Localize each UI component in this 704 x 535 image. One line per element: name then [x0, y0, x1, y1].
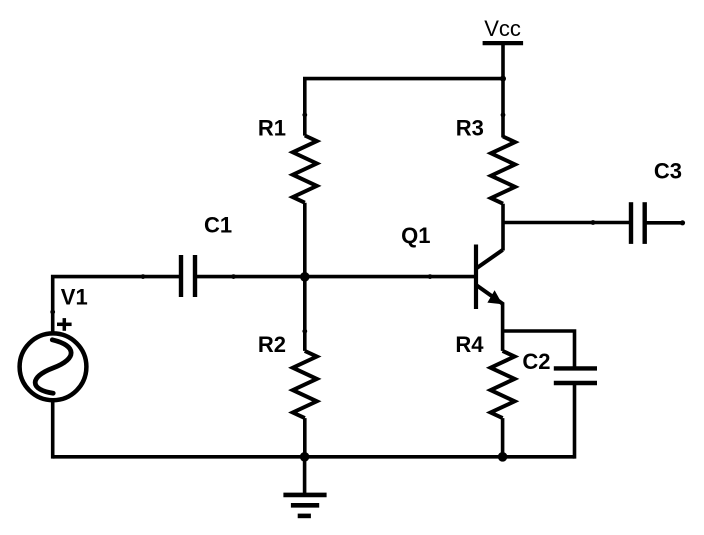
pin nub V1 top	[50, 310, 55, 315]
pin nub R1 top	[302, 113, 307, 118]
svg-text:C1: C1	[204, 213, 232, 238]
voltage source V1	[20, 333, 87, 400]
base bar	[474, 245, 478, 310]
svg-text:R4: R4	[455, 332, 484, 357]
svg-text:Q1: Q1	[401, 223, 430, 248]
pin nub Q1 base	[428, 274, 433, 279]
pin nub C1 right	[231, 274, 236, 279]
Vcc power rail symbol	[483, 41, 523, 45]
capacitor C3	[631, 202, 645, 244]
wire R4 to ground rail	[501, 418, 505, 457]
wire C1 to base node	[195, 275, 305, 279]
capacitor C2	[554, 368, 597, 383]
ground	[283, 457, 326, 516]
wire base node to R2	[303, 277, 307, 351]
pin nub C1 left	[141, 274, 146, 279]
resistor R4	[491, 351, 515, 418]
junction nub top rail / Vcc	[500, 76, 506, 82]
pin nub R3 top	[501, 113, 506, 118]
pin nub R2 top	[302, 329, 307, 334]
plus sign	[57, 318, 72, 331]
wire base node to Q1 base	[305, 275, 476, 279]
wire emitter to C2	[503, 331, 575, 368]
wire collector node to C3	[503, 221, 631, 225]
svg-text:R1: R1	[258, 116, 286, 141]
wire R2 to ground node	[303, 418, 307, 457]
wire Vcc to R3	[501, 43, 505, 137]
svg-text:R3: R3	[456, 116, 484, 141]
resistor R1	[293, 136, 317, 203]
wire C3 output	[645, 221, 683, 225]
wire emitter	[501, 303, 505, 351]
transistor Q1	[476, 245, 503, 310]
svg-text:R2: R2	[258, 332, 286, 357]
wire V1 to bottom rail	[51, 400, 55, 458]
capacitor C1	[181, 255, 195, 297]
node base junction	[300, 272, 310, 282]
emitter arrow	[487, 290, 502, 304]
node ground junction	[300, 452, 310, 462]
wire R1 to base node	[303, 203, 307, 277]
collector lead	[477, 250, 503, 268]
svg-text:C2: C2	[522, 349, 550, 374]
pin nub C3 left	[591, 220, 596, 225]
resistor R3	[491, 137, 515, 204]
svg-text:Vcc: Vcc	[484, 16, 521, 41]
wire top rail	[305, 79, 503, 136]
wire R3 to collector	[501, 204, 505, 251]
wire V1 to C1	[53, 277, 181, 332]
wire bottom rail	[53, 455, 575, 459]
pin nub C3 output end	[680, 220, 685, 225]
svg-text:V1: V1	[61, 285, 88, 310]
sine wave	[35, 340, 71, 393]
svg-text:C3: C3	[654, 158, 682, 183]
resistor R2	[293, 351, 317, 418]
emitter lead	[477, 285, 504, 304]
node emitter junction	[498, 452, 508, 462]
wire C2 to ground rail	[573, 383, 577, 459]
